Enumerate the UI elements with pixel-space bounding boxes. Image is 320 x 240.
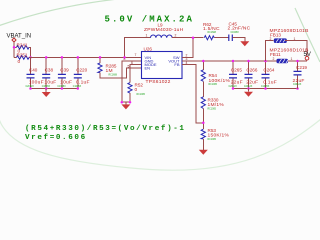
wire R62 to C45 — [214, 37, 229, 39]
svg-text:(R54+R330)/R53=(Vo/Vref)-1: (R54+R330)/R53=(Vo/Vref)-1 — [25, 125, 186, 133]
resistor R251 — [17, 56, 30, 60]
svg-text:RC1005: RC1005 — [137, 94, 146, 96]
svg-text:1M/1%: 1M/1% — [208, 102, 225, 108]
terminal pin VBAT_IN — [12, 38, 16, 42]
ground input caps — [45, 89, 47, 93]
capacitor C265 — [232, 61, 234, 74]
svg-text:RC1005: RC1005 — [208, 139, 217, 141]
svg-text:7: 7 — [135, 53, 137, 57]
capacitor C264 — [265, 61, 267, 74]
svg-text:R52: R52 — [135, 83, 144, 88]
svg-text:TPS61022: TPS61022 — [146, 79, 171, 85]
resistor R62 — [204, 36, 214, 40]
wire FB — [182, 65, 203, 123]
resistor R330 — [201, 97, 205, 109]
svg-text:C266: C266 — [246, 67, 257, 72]
svg-text:C40: C40 — [29, 67, 38, 72]
svg-text:C219: C219 — [296, 65, 307, 70]
wire L9 to SW junction — [172, 37, 203, 39]
capacitor C266 — [248, 61, 250, 74]
op-amp U26 box — [142, 52, 183, 79]
svg-text:R53: R53 — [208, 128, 217, 133]
svg-text:0: 0 — [18, 59, 21, 65]
ground output caps — [248, 89, 250, 92]
inductor L9 — [125, 38, 151, 58]
svg-text:5V: 5V — [304, 52, 311, 58]
capacitor C219 — [297, 61, 299, 71]
svg-text:2: 2 — [270, 37, 272, 41]
svg-text:FB: FB — [174, 62, 179, 67]
svg-text:C39: C39 — [60, 67, 69, 72]
svg-text:R251: R251 — [17, 52, 28, 57]
wire GND pin down — [122, 61, 142, 102]
junction dots VIN rail caps — [45, 56, 48, 59]
svg-text:RC1608: RC1608 — [208, 32, 217, 34]
capacitor C220 — [77, 57, 79, 74]
wire R285 to EN — [100, 68, 142, 78]
wire R241 right vertical — [29, 47, 31, 57]
green highlight arc bottom — [0, 119, 320, 170]
wire output caps bottom rail — [233, 88, 298, 90]
capacitor C45 — [229, 35, 233, 42]
wire input caps bottom rail — [31, 88, 78, 90]
svg-text:RC1005: RC1005 — [208, 109, 217, 111]
svg-text:1: 1 — [146, 33, 148, 37]
svg-text:VBAT_IN: VBAT_IN — [7, 34, 32, 40]
svg-text:2: 2 — [175, 33, 177, 37]
svg-text:R54: R54 — [209, 73, 218, 78]
svg-text:R241: R241 — [17, 42, 28, 47]
svg-text:EN: EN — [145, 66, 151, 71]
wire R330 to R53 — [202, 109, 204, 130]
ground R53 — [199, 150, 208, 155]
svg-text:L9: L9 — [158, 22, 164, 27]
green highlight arc top-right — [295, 8, 320, 62]
junction dots bottom rail — [29, 87, 32, 90]
wire R53 to ground — [202, 139, 204, 150]
svg-text:22uF: 22uF — [231, 80, 243, 86]
svg-text:10uF: 10uF — [60, 80, 72, 86]
wire R52 bottom — [129, 93, 131, 102]
svg-text:FB11: FB11 — [270, 52, 281, 57]
svg-text:C265: C265 — [231, 67, 242, 72]
svg-text:5.0V /MAX.2A: 5.0V /MAX.2A — [105, 15, 194, 25]
wire rail stub — [14, 56, 17, 58]
svg-text:R285: R285 — [106, 63, 117, 68]
svg-text:6: 6 — [131, 61, 133, 65]
resistor R53 — [201, 129, 205, 139]
svg-text:RC1005: RC1005 — [209, 84, 218, 86]
svg-text:100uF: 100uF — [29, 80, 44, 86]
junction dot FB node — [202, 122, 205, 125]
wire R241 branch left vertical — [14, 46, 17, 48]
wire FB13 to 5V — [285, 41, 307, 57]
ground C45 — [240, 41, 249, 46]
wire VIN rail — [29, 56, 142, 58]
junction dot R285 top — [99, 56, 102, 59]
svg-text:C38: C38 — [45, 67, 54, 72]
svg-text:22uF: 22uF — [246, 80, 258, 86]
svg-text:RC1608: RC1608 — [109, 74, 118, 76]
wire SW — [182, 38, 193, 58]
resistor R52 — [128, 83, 132, 94]
wire VOUT rail — [182, 60, 307, 62]
wire VBAT_IN vertical — [13, 42, 15, 57]
capacitor C40 — [30, 57, 32, 74]
wire FB13 riser — [266, 41, 274, 61]
junction dot rail C40 — [29, 56, 32, 59]
svg-text:C1608X: C1608X — [231, 32, 240, 34]
svg-text:0.1uF: 0.1uF — [76, 80, 90, 86]
resistor R285 — [99, 57, 101, 63]
svg-text:C264: C264 — [263, 67, 274, 72]
svg-text:R330: R330 — [208, 97, 219, 102]
wire R54 to R330 — [202, 81, 204, 97]
svg-text:22uF: 22uF — [293, 78, 305, 84]
wire MODE to R52 — [130, 65, 142, 83]
svg-text:0: 0 — [135, 87, 138, 93]
ferrite bead FB11 — [277, 59, 289, 64]
svg-text:C2012X: C2012X — [293, 84, 302, 86]
junction dot SW node — [192, 36, 195, 39]
green highlight arc top-left — [0, 0, 118, 26]
terminal pin 5V — [305, 56, 309, 60]
resistor R54 — [202, 61, 204, 70]
junction dot VBAT R241 — [13, 46, 16, 49]
svg-text:2: 2 — [273, 57, 275, 61]
svg-text:1: 1 — [291, 57, 293, 61]
svg-text:ZPWM4030-1uH: ZPWM4030-1uH — [144, 27, 184, 33]
svg-text:1M: 1M — [106, 68, 113, 74]
ferrite bead FB13 — [274, 38, 287, 43]
svg-text:100K/1%: 100K/1% — [209, 78, 231, 84]
svg-text:FB13: FB13 — [270, 33, 281, 38]
wire C45 to ground — [232, 38, 245, 42]
capacitor C38 — [45, 57, 47, 74]
svg-text:10uF: 10uF — [44, 80, 56, 86]
svg-text:0.1uF: 0.1uF — [263, 80, 277, 86]
svg-text:C220: C220 — [76, 67, 87, 72]
svg-text:2.2nF/NC: 2.2nF/NC — [228, 26, 251, 32]
svg-text:5: 5 — [128, 64, 130, 68]
ground U26 — [125, 102, 127, 104]
resistor R241 — [17, 46, 30, 50]
capacitor C39 — [61, 57, 63, 74]
svg-text:150K/1%: 150K/1% — [208, 132, 230, 138]
wire U26 ground rail — [122, 101, 130, 103]
svg-text:U26: U26 — [144, 46, 153, 51]
svg-text:Vref=0.606: Vref=0.606 — [25, 134, 87, 142]
